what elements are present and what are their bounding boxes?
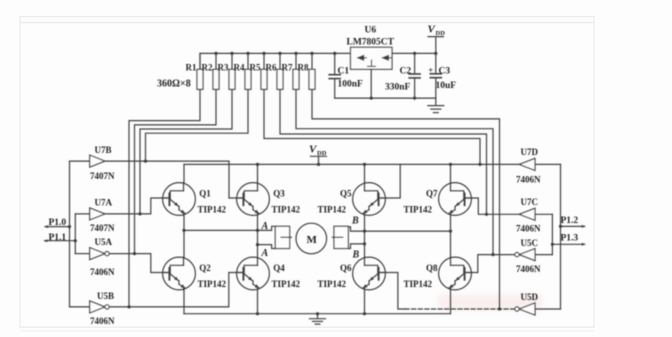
svg-text:U7D: U7D xyxy=(521,147,539,157)
op-amp buffer U7B 7407N xyxy=(90,145,115,181)
wire U5A input stub xyxy=(75,253,89,255)
op-amp buffer U5D 7406N xyxy=(515,292,539,315)
svg-text:TIP142: TIP142 xyxy=(404,205,433,215)
wire P1.0 rail left outer xyxy=(69,161,71,307)
wire U5D input stub xyxy=(535,308,561,310)
transistor Q4 TIP142 xyxy=(236,257,301,290)
wire bridge ground rail xyxy=(184,313,451,315)
wire Q1 collector to rail xyxy=(183,164,185,183)
wire P1.1 rail left inner xyxy=(74,214,76,254)
motor M xyxy=(296,223,327,254)
svg-text:P1.1: P1.1 xyxy=(49,233,67,243)
svg-text:Q6: Q6 xyxy=(340,263,352,273)
svg-text:C3: C3 xyxy=(439,66,451,76)
svg-text:TIP142: TIP142 xyxy=(404,279,433,289)
op-amp U6 LM7805CT regulator xyxy=(347,26,395,70)
svg-text:R4: R4 xyxy=(234,63,245,73)
svg-text:B: B xyxy=(351,216,359,227)
transistor Q8 TIP142 xyxy=(404,257,473,290)
resistor R7 xyxy=(282,53,300,89)
wire node B horizontal xyxy=(348,227,450,231)
wire U5B output to Q4 base xyxy=(109,273,244,307)
node power section junction dots xyxy=(333,52,437,100)
ground power section xyxy=(428,98,444,113)
svg-text:TIP142: TIP142 xyxy=(272,279,301,289)
pink watermark smudge xyxy=(438,294,542,310)
wire U7D output to Q5 base xyxy=(379,164,401,198)
svg-text:Q4: Q4 xyxy=(273,263,285,273)
wire node A lower stub xyxy=(258,245,276,249)
svg-text:C1: C1 xyxy=(338,66,350,76)
node P1.0 input port xyxy=(44,218,69,228)
capacitor C1 100nF xyxy=(329,53,363,98)
svg-text:R3: R3 xyxy=(218,63,229,73)
svg-text:U7C: U7C xyxy=(521,197,539,207)
svg-text:U5D: U5D xyxy=(521,292,539,302)
svg-text:R5: R5 xyxy=(250,63,261,73)
svg-text:Q7: Q7 xyxy=(426,189,438,199)
wire U7A output to Q1 base xyxy=(105,198,170,214)
transistor Q3 TIP142 xyxy=(236,183,301,216)
wire regulator ground pin xyxy=(370,69,372,98)
wire U5C output to Q8 base xyxy=(465,255,515,273)
node port junction dots xyxy=(68,225,562,246)
svg-text:LM7805CT: LM7805CT xyxy=(347,37,395,47)
wire U7D input stub xyxy=(535,163,561,165)
svg-text:R7: R7 xyxy=(282,63,293,73)
wire Q8 emitter to ground rail xyxy=(450,290,452,314)
wire R4 bottom to U7B net vertical xyxy=(146,89,249,161)
wire node A horizontal xyxy=(184,226,275,230)
svg-text:A: A xyxy=(261,221,269,232)
transistor Q2 TIP142 xyxy=(162,257,227,290)
wire P1.3 rail right inner xyxy=(551,214,553,254)
op-amp buffer U5C 7406N xyxy=(515,238,541,274)
node P1.3 input port xyxy=(552,234,585,246)
svg-text:7406N: 7406N xyxy=(90,316,115,326)
wire Q5 collector to rail xyxy=(364,164,366,183)
wire Q6 emitter to ground rail xyxy=(364,290,366,314)
wire U5D output to Q6 base xyxy=(379,273,515,310)
svg-text:U5C: U5C xyxy=(521,238,539,248)
wire P1.2 rail right outer xyxy=(560,164,562,309)
svg-text:R2: R2 xyxy=(202,63,213,73)
power VDD symbol bridge xyxy=(309,144,327,165)
resistor R4 xyxy=(234,53,252,89)
svg-text:DD: DD xyxy=(436,30,446,37)
wire R5 bottom to U7D net vertical xyxy=(264,89,480,164)
svg-text:TIP142: TIP142 xyxy=(198,205,227,215)
wire U7A input stub xyxy=(75,213,89,215)
page frame xyxy=(20,17,594,331)
label 360ohm x8 xyxy=(157,79,191,90)
wire U7C input stub xyxy=(535,213,552,215)
resistor R3 xyxy=(218,53,236,89)
wire Q7 emitter to Q8 collector xyxy=(450,215,452,258)
transistor Q5 TIP142 xyxy=(318,183,387,216)
svg-text:A: A xyxy=(261,248,269,259)
svg-text:TIP142: TIP142 xyxy=(318,279,347,289)
op-amp buffer U7C 7406N xyxy=(516,197,541,233)
capacitor C3 10uF polarized xyxy=(428,53,456,98)
node bridge junction dots xyxy=(127,160,501,316)
op-amp buffer U5B 7406N xyxy=(90,291,115,326)
svg-text:U6: U6 xyxy=(365,26,377,36)
svg-text:7407N: 7407N xyxy=(90,223,115,233)
svg-text:U5A: U5A xyxy=(95,237,113,247)
resistor R2 xyxy=(202,53,220,89)
wire U7B input stub xyxy=(70,160,90,162)
svg-text:C2: C2 xyxy=(400,66,412,76)
wire Q3 collector to rail xyxy=(257,164,259,183)
svg-text:100nF: 100nF xyxy=(338,79,364,89)
wire Q4 emitter to ground rail xyxy=(257,290,259,314)
wire U5B input stub xyxy=(70,306,90,308)
svg-text:7406N: 7406N xyxy=(516,264,541,274)
transistor Q7 TIP142 xyxy=(404,183,473,216)
wire Q2 emitter to ground rail xyxy=(183,290,185,314)
op-amp buffer U7A 7407N xyxy=(90,197,115,233)
power VDD symbol top xyxy=(428,24,446,54)
node P1.2 input port xyxy=(561,216,586,228)
svg-text:P1.2: P1.2 xyxy=(561,216,579,226)
ground bridge xyxy=(310,314,326,324)
svg-text:P1.3: P1.3 xyxy=(561,234,579,244)
wire R2 bottom to U5A net vertical xyxy=(135,89,217,253)
node bus junction dots R2-R8 xyxy=(214,52,313,55)
svg-text:B: B xyxy=(352,250,360,261)
wire U7B output to Q3 base xyxy=(105,161,244,198)
transistor Q1 TIP142 xyxy=(162,183,227,216)
wire power section bottom rail xyxy=(335,97,436,99)
op-amp buffer U7D 7406N xyxy=(516,147,541,185)
node P1.1 input port xyxy=(44,233,76,243)
svg-text:U5B: U5B xyxy=(97,291,114,301)
svg-text:7406N: 7406N xyxy=(516,224,541,234)
svg-text:R8: R8 xyxy=(298,63,309,73)
wire R1 bottom to U5B net vertical xyxy=(129,89,200,307)
wire resistor top bus to regulator input xyxy=(200,53,351,69)
wire R6 bottom to U7C net vertical xyxy=(280,89,487,214)
wire Q3 emitter to Q4 collector xyxy=(257,215,259,258)
svg-text:330nF: 330nF xyxy=(385,83,411,93)
wire Q7 collector to rail xyxy=(450,164,452,183)
svg-text:10uF: 10uF xyxy=(436,81,457,91)
svg-text:7406N: 7406N xyxy=(516,175,541,185)
resistor R5 xyxy=(250,53,268,89)
wire R3 bottom to U7A net vertical xyxy=(140,89,232,213)
op-amp buffer U5A 7406N xyxy=(90,237,115,277)
wire U7C output to Q7 base xyxy=(465,198,519,214)
svg-text:U7B: U7B xyxy=(95,145,112,155)
resistor R6 xyxy=(266,53,284,89)
svg-text:M: M xyxy=(307,234,318,246)
svg-text:7406N: 7406N xyxy=(90,267,115,277)
svg-text:TIP142: TIP142 xyxy=(272,205,301,215)
svg-text:Q1: Q1 xyxy=(199,189,211,199)
wire R8 bottom to U5D net vertical xyxy=(312,89,500,309)
wire Q1 emitter to Q2 collector xyxy=(183,215,185,258)
wire regulator output xyxy=(392,52,436,54)
wire R7 bottom to U5C net vertical xyxy=(296,89,493,254)
wire Q5 emitter to Q6 collector xyxy=(364,215,366,258)
svg-text:U7A: U7A xyxy=(95,197,113,207)
svg-text:R6: R6 xyxy=(266,63,277,73)
svg-text:7407N: 7407N xyxy=(90,171,115,181)
wire node B lower stub xyxy=(348,244,364,249)
resistor R8 xyxy=(298,53,316,89)
svg-text:Q2: Q2 xyxy=(199,263,211,273)
connector A xyxy=(261,221,292,259)
svg-text:Q8: Q8 xyxy=(426,263,438,273)
svg-text:TIP142: TIP142 xyxy=(318,205,347,215)
capacitor C2 330nF xyxy=(385,53,420,98)
connector B xyxy=(332,216,359,261)
wire VDD top rail of bridge xyxy=(184,163,519,165)
transistor Q6 TIP142 xyxy=(318,257,387,290)
resistor R1 xyxy=(186,53,204,89)
svg-text:R1: R1 xyxy=(186,63,197,73)
svg-text:+: + xyxy=(428,65,433,75)
svg-text:360Ω×8: 360Ω×8 xyxy=(157,79,191,90)
wire U5C input stub xyxy=(535,254,552,256)
svg-text:TIP142: TIP142 xyxy=(198,279,227,289)
svg-text:Q3: Q3 xyxy=(273,189,285,199)
wire U5A output to Q2 base xyxy=(109,254,170,273)
svg-text:Q5: Q5 xyxy=(340,189,352,199)
